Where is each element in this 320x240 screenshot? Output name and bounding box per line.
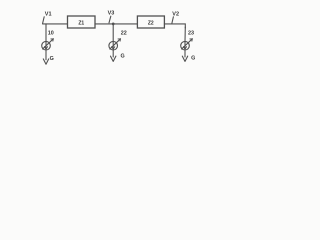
node V3 (108, 10, 115, 23)
ground G branch 2 (111, 50, 125, 61)
source element 22 (circle with arrow) (109, 39, 121, 50)
svg-text:G: G (191, 55, 195, 61)
svg-text:Z2: Z2 (148, 21, 154, 27)
wire branch 1 down (45, 24, 47, 42)
svg-text:G: G (121, 53, 125, 59)
svg-text:23: 23 (188, 31, 194, 37)
source element 23 (circle with arrow) (181, 39, 193, 50)
node V2 (172, 11, 179, 23)
ground G branch 1 (43, 50, 54, 64)
svg-text:22: 22 (121, 31, 127, 37)
impedance Z1 (68, 16, 96, 28)
svg-text:Z1: Z1 (78, 21, 84, 27)
junction node V3 dot (112, 23, 115, 26)
svg-text:G: G (50, 56, 54, 62)
svg-text:V1: V1 (45, 11, 52, 17)
wire V1 to Z1 (43, 23, 68, 25)
wire branch 2 down (112, 24, 114, 42)
ground G branch 3 (182, 50, 195, 61)
wire Z2 to V2 corner (164, 24, 185, 28)
node V1 (43, 11, 52, 23)
impedance Z2 (137, 16, 164, 28)
svg-text:V3: V3 (108, 10, 115, 16)
wire Z1 to Z2 (95, 23, 137, 25)
wire branch 3 down (184, 27, 186, 42)
source element 10 (circle with arrow) (42, 39, 54, 50)
svg-text:10: 10 (48, 31, 54, 37)
